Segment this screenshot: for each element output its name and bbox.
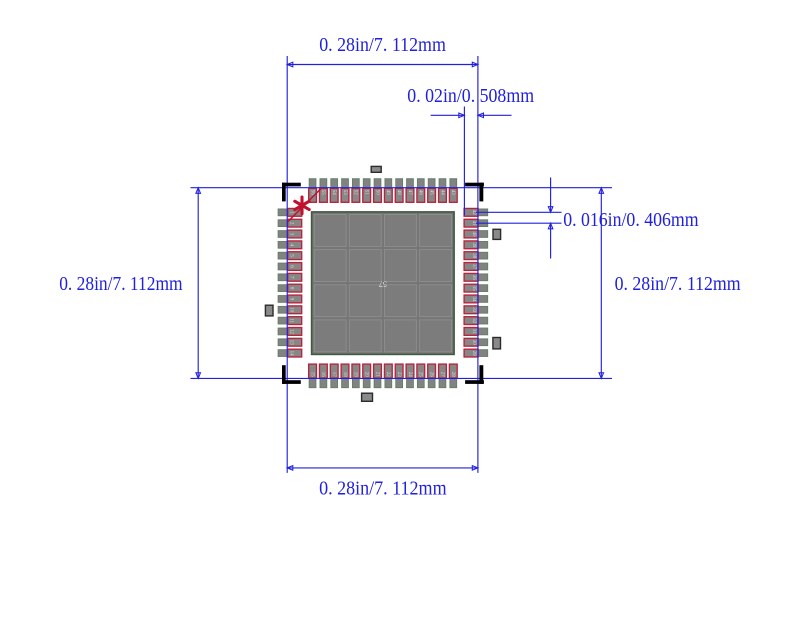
svg-text:20: 20 bbox=[364, 372, 369, 378]
svg-text:16: 16 bbox=[320, 372, 325, 378]
pad 24 (bottom) bbox=[406, 364, 414, 388]
svg-text:52: 52 bbox=[353, 190, 358, 196]
pad 32 (right) bbox=[464, 317, 488, 325]
pad 9 (left) bbox=[278, 295, 302, 303]
svg-text:37: 37 bbox=[471, 264, 476, 270]
svg-text:14: 14 bbox=[288, 351, 293, 357]
svg-text:27: 27 bbox=[439, 372, 444, 378]
svg-text:32: 32 bbox=[471, 318, 476, 324]
pad 8 (left) bbox=[278, 284, 302, 292]
pad 53 (top) bbox=[341, 179, 349, 203]
orientation mark right upper bbox=[493, 229, 501, 239]
svg-text:36: 36 bbox=[471, 275, 476, 281]
lead length dimension 0.02in/0.508mm bbox=[407, 85, 534, 117]
extension line left (x=287.2) bbox=[286, 56, 288, 473]
corner bracket top-left bbox=[282, 183, 301, 202]
pad 23 (bottom) bbox=[395, 364, 403, 388]
svg-text:35: 35 bbox=[471, 286, 476, 292]
pad 56 (top) bbox=[309, 179, 317, 203]
svg-text:40: 40 bbox=[471, 232, 476, 238]
svg-text:38: 38 bbox=[471, 253, 476, 259]
pad 14 (left) bbox=[278, 349, 302, 357]
orientation mark left bbox=[265, 305, 273, 316]
svg-text:29: 29 bbox=[471, 351, 476, 357]
pad 42 (right) bbox=[464, 208, 488, 216]
orientation mark bottom bbox=[362, 393, 373, 401]
extension line body bottom (y=378.4) bbox=[191, 377, 613, 379]
svg-text:0. 016in/0. 406mm: 0. 016in/0. 406mm bbox=[563, 209, 698, 231]
svg-text:49: 49 bbox=[385, 190, 390, 196]
svg-text:0. 28in/7. 112mm: 0. 28in/7. 112mm bbox=[319, 34, 446, 56]
svg-text:51: 51 bbox=[364, 190, 369, 196]
svg-text:47: 47 bbox=[407, 190, 412, 196]
pad 48 (top) bbox=[395, 179, 403, 203]
pad 47 (top) bbox=[406, 179, 414, 203]
pad 37 (right) bbox=[464, 263, 488, 271]
center thermal pad 57 bbox=[312, 212, 455, 355]
svg-text:15: 15 bbox=[309, 372, 314, 378]
pad 27 (bottom) bbox=[439, 364, 447, 388]
svg-text:34: 34 bbox=[471, 296, 476, 302]
bottom dimension 0.28in/7.112mm bbox=[287, 466, 478, 500]
pad 2 (left) bbox=[278, 219, 302, 227]
pad 31 (right) bbox=[464, 328, 488, 336]
pitch dimension 0.016in/0.406mm bbox=[476, 178, 699, 259]
pad 40 (right) bbox=[464, 230, 488, 238]
pad 45 (top) bbox=[428, 179, 436, 203]
svg-text:17: 17 bbox=[331, 372, 336, 378]
pad 38 (right) bbox=[464, 252, 488, 260]
extension line lead inner (x=464.4) bbox=[463, 107, 465, 216]
pad 21 (bottom) bbox=[374, 364, 382, 388]
extension line right (x=477.9) bbox=[477, 56, 479, 473]
pad 7 (left) bbox=[278, 273, 302, 281]
pad 35 (right) bbox=[464, 284, 488, 292]
pad 15 (bottom) bbox=[309, 364, 317, 388]
pad 20 (bottom) bbox=[363, 364, 371, 388]
pad 19 (bottom) bbox=[352, 364, 360, 388]
orientation mark right lower bbox=[493, 338, 501, 349]
svg-text:42: 42 bbox=[471, 210, 476, 216]
svg-text:26: 26 bbox=[428, 372, 433, 378]
pad 36 (right) bbox=[464, 273, 488, 281]
right dimension 0.28in/7.112mm bbox=[599, 188, 741, 379]
extension line body top (y=187.7) bbox=[191, 187, 613, 189]
svg-text:21: 21 bbox=[374, 372, 379, 378]
svg-text:23: 23 bbox=[396, 372, 401, 378]
svg-text:12: 12 bbox=[288, 329, 293, 335]
pad 3 (left) bbox=[278, 230, 302, 238]
pad 46 (top) bbox=[417, 179, 425, 203]
svg-text:33: 33 bbox=[471, 307, 476, 313]
svg-text:45: 45 bbox=[428, 190, 433, 196]
svg-text:50: 50 bbox=[374, 190, 379, 196]
svg-text:0. 02in/0. 508mm: 0. 02in/0. 508mm bbox=[407, 85, 534, 107]
svg-text:56: 56 bbox=[309, 190, 314, 196]
svg-text:54: 54 bbox=[331, 190, 336, 196]
svg-text:55: 55 bbox=[320, 190, 325, 196]
pad 5 (left) bbox=[278, 252, 302, 260]
orientation mark top bbox=[371, 166, 381, 172]
pad 55 (top) bbox=[319, 179, 327, 203]
pad 33 (right) bbox=[464, 306, 488, 314]
svg-text:43: 43 bbox=[450, 190, 455, 196]
pad 28 (bottom) bbox=[449, 364, 457, 388]
svg-text:46: 46 bbox=[418, 190, 423, 196]
corner bracket bottom-right bbox=[465, 365, 484, 384]
pad 50 (top) bbox=[374, 179, 382, 203]
svg-text:11: 11 bbox=[288, 318, 293, 323]
svg-text:22: 22 bbox=[385, 372, 390, 378]
pad 17 (bottom) bbox=[330, 364, 338, 388]
svg-text:28: 28 bbox=[450, 372, 455, 378]
svg-text:41: 41 bbox=[471, 221, 476, 227]
pad 44 (top) bbox=[439, 179, 447, 203]
svg-text:18: 18 bbox=[342, 372, 347, 378]
pad 4 (left) bbox=[278, 241, 302, 249]
top dimension 0.28in/7.112mm bbox=[287, 34, 478, 67]
pad 1 (left) bbox=[278, 208, 302, 216]
pin 1 asterisk bbox=[295, 197, 309, 214]
corner bracket top-right bbox=[465, 183, 484, 202]
pad 12 (left) bbox=[278, 328, 302, 336]
pad 52 (top) bbox=[352, 179, 360, 203]
corner bracket bottom-left bbox=[282, 365, 301, 384]
svg-text:24: 24 bbox=[407, 372, 412, 378]
pin 1 chamfer line bbox=[288, 188, 322, 222]
svg-text:10: 10 bbox=[288, 307, 293, 313]
svg-text:53: 53 bbox=[342, 190, 347, 196]
pad 34 (right) bbox=[464, 295, 488, 303]
svg-text:19: 19 bbox=[353, 372, 358, 378]
pad 18 (bottom) bbox=[341, 364, 349, 388]
pad 49 (top) bbox=[384, 179, 392, 203]
pad 25 (bottom) bbox=[417, 364, 425, 388]
svg-text:48: 48 bbox=[396, 190, 401, 196]
pad 13 (left) bbox=[278, 338, 302, 346]
svg-text:13: 13 bbox=[288, 340, 293, 346]
svg-text:57: 57 bbox=[379, 280, 387, 289]
svg-text:0. 28in/7. 112mm: 0. 28in/7. 112mm bbox=[615, 273, 741, 295]
svg-text:30: 30 bbox=[471, 340, 476, 346]
pad 10 (left) bbox=[278, 306, 302, 314]
pad 30 (right) bbox=[464, 338, 488, 346]
left dimension 0.28in/7.112mm bbox=[59, 188, 200, 379]
svg-text:31: 31 bbox=[471, 329, 476, 335]
svg-text:25: 25 bbox=[418, 372, 423, 378]
pad 6 (left) bbox=[278, 263, 302, 271]
svg-text:0. 28in/7. 112mm: 0. 28in/7. 112mm bbox=[59, 273, 182, 295]
svg-text:44: 44 bbox=[439, 190, 444, 196]
pad 51 (top) bbox=[363, 179, 371, 203]
pad 39 (right) bbox=[464, 241, 488, 249]
pad 22 (bottom) bbox=[384, 364, 392, 388]
pad 11 (left) bbox=[278, 317, 302, 325]
pad 43 (top) bbox=[449, 179, 457, 203]
pad 54 (top) bbox=[330, 179, 338, 203]
pad 41 (right) bbox=[464, 219, 488, 227]
pad 16 (bottom) bbox=[319, 364, 327, 388]
svg-text:39: 39 bbox=[471, 242, 476, 248]
pad 26 (bottom) bbox=[428, 364, 436, 388]
svg-text:0. 28in/7. 112mm: 0. 28in/7. 112mm bbox=[319, 478, 447, 500]
pad 29 (right) bbox=[464, 349, 488, 357]
